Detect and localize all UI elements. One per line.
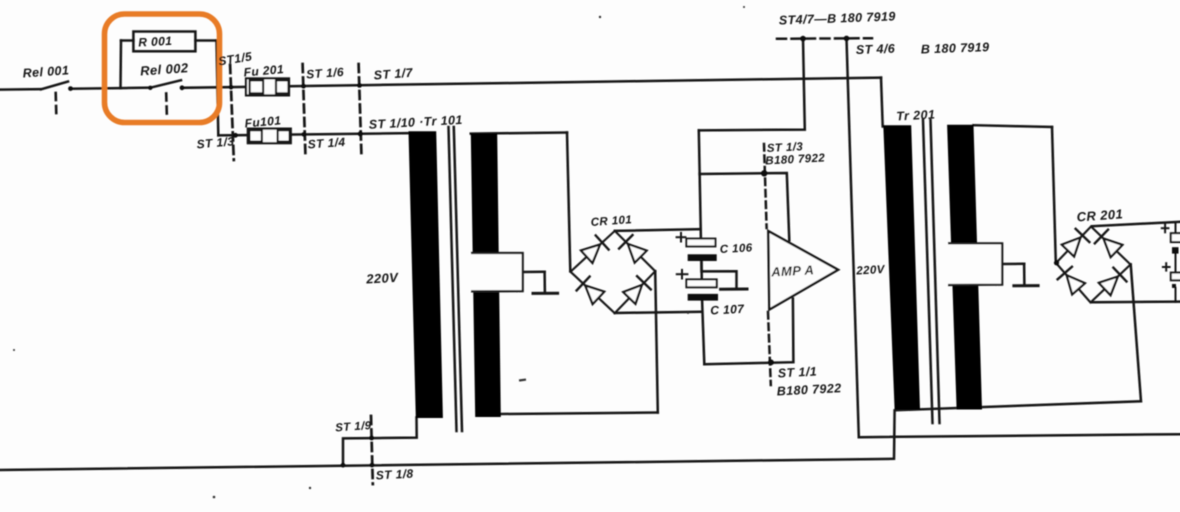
svg-text:ST 1/8: ST 1/8 — [375, 467, 413, 483]
svg-text:B180 7922: B180 7922 — [765, 152, 826, 167]
svg-text:ST 1/1: ST 1/1 — [777, 364, 817, 380]
svg-text:AMP A: AMP A — [770, 262, 815, 279]
svg-text:CR 201: CR 201 — [1076, 206, 1123, 224]
svg-text:ST 1/4: ST 1/4 — [307, 135, 346, 152]
svg-text:Tr 201: Tr 201 — [896, 107, 936, 123]
svg-text:B 180 7919: B 180 7919 — [921, 40, 990, 56]
svg-text:ST 1/3: ST 1/3 — [196, 134, 235, 151]
svg-text:220V: 220V — [855, 264, 886, 278]
svg-text:ST 1/7: ST 1/7 — [373, 66, 414, 83]
svg-text:ST 4/6: ST 4/6 — [856, 42, 896, 57]
svg-text:R 001: R 001 — [138, 34, 173, 50]
svg-text:C 106: C 106 — [720, 242, 753, 256]
svg-text:220V: 220V — [365, 270, 400, 287]
svg-text:ST 1/6: ST 1/6 — [306, 65, 345, 82]
svg-text:B180 7922: B180 7922 — [776, 381, 841, 398]
svg-text:Fu 201: Fu 201 — [243, 62, 284, 79]
svg-text:C 107: C 107 — [710, 302, 746, 318]
svg-text:ST 1/9: ST 1/9 — [335, 420, 372, 435]
svg-text:ST4/7—B 180 7919: ST4/7—B 180 7919 — [779, 9, 896, 27]
svg-text:Rel 001: Rel 001 — [22, 63, 69, 80]
svg-text:Rel 002: Rel 002 — [140, 60, 190, 78]
svg-text:CR 101: CR 101 — [590, 214, 632, 229]
